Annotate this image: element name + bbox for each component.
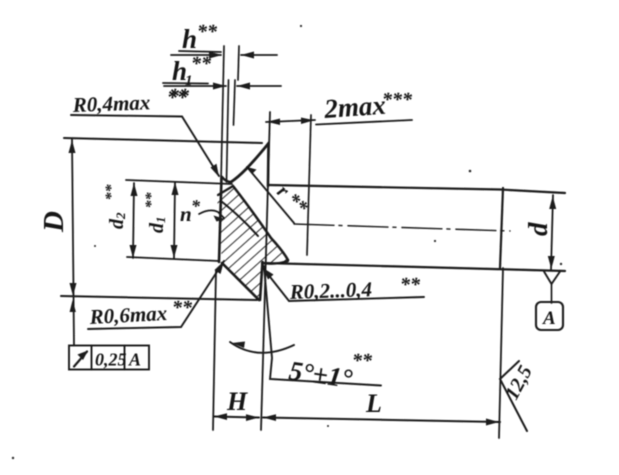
part: bottom lip inner diagonal [222,263,259,300]
svg-text:n: n [180,202,192,226]
arrow h left [209,52,222,59]
arrow d1 top [172,182,179,195]
svg-text:**: ** [191,53,212,75]
svg-text:**: ** [172,297,193,319]
wire: h dimension line right [241,54,277,56]
arrow H right [246,414,259,421]
wire: R0.2...0.4 leader and underline [263,268,424,301]
part: bottom lip right edge [260,262,263,300]
svg-text:h: h [182,24,197,54]
svg-text:R0,6max: R0,6max [88,301,168,329]
wire: d dimension line [551,195,553,270]
wire: R0.4max underline and leader [71,115,219,176]
tolerance frame [69,346,149,370]
wire: h dimension line left [171,54,221,56]
arrow R0.6max leader [215,261,225,274]
svg-text:**: ** [400,274,421,296]
part: top lip curve [231,144,268,182]
wire: inner top extension line L2 [126,180,232,184]
svg-text:*: * [191,196,201,216]
part: inner cone boundary [233,186,288,260]
wire: 2max right extension [307,115,311,255]
wire: h1 dimension line right [237,85,281,87]
wire: datum stem [551,283,553,303]
arrow h1 left [213,83,226,90]
wire: R0.6max underline and leader [88,261,224,329]
wire: L dimension line [263,418,500,423]
wire: D dimension line [72,139,74,346]
svg-text:**: ** [197,21,218,43]
arrow d1 bottom [171,245,178,258]
wire: 5 degree slant line and underline [264,266,381,386]
wire: shank bottom line L6 [262,263,565,271]
hatching [217,186,288,300]
svg-text:R0,2...0,4: R0,2...0,4 [288,277,372,304]
wire: 2max underline [316,120,412,125]
datum box A [536,302,563,330]
arrow r leader [247,167,257,174]
wire: d2 dimension line [133,183,134,258]
arrow n leader [214,216,226,222]
svg-text:d2**: d2** [103,184,128,230]
wire: h1 extension line E4 [234,80,236,125]
svg-text:2max: 2max [322,90,386,124]
svg-text:L: L [365,389,382,418]
part: left face [219,177,222,262]
part: inner cone break line [221,201,258,236]
wire: h label underline [179,51,221,52]
svg-text:H: H [226,387,248,416]
wire: h extension line E2 [238,46,239,80]
wire: 5 degree arc [230,342,294,353]
svg-text:**: ** [169,85,190,107]
arrow D top [69,140,76,153]
svg-text:A: A [542,308,556,329]
arrow D bottom [70,283,77,296]
wire: shank top line L3 [268,185,565,193]
arrow 2max right [301,118,314,125]
arrow R0.2 leader [263,268,274,280]
wire: n leader [199,210,224,218]
svg-text:d: d [523,222,553,236]
arrow d top [549,196,556,209]
wire: r leader [247,167,294,223]
part: lip root edge [218,186,233,195]
wire: d1 dimension line [174,182,175,258]
svg-text:d1**: d1** [143,192,168,234]
runout symbol arrow [74,352,87,367]
arrow arc left [232,342,245,349]
wire: shank end vertical [500,188,503,268]
svg-text:**: ** [352,350,373,372]
arrow H left [214,413,227,420]
svg-text:D: D [38,211,70,233]
wire: bottom D extension line L7 [61,296,257,300]
wire: H left extension [213,270,216,430]
arrow h1 right [237,83,250,90]
wire: 2max dimension line [266,120,315,122]
arrow R0.4max leader [211,164,220,177]
arrow L right [486,419,499,426]
svg-text:R0,4max: R0,4max [71,90,150,117]
arrow blob below L7 [70,300,76,312]
wire: h1 label underline [163,82,208,85]
wire: inner bottom extension line L5 [127,257,219,261]
arrow d bottom [548,256,555,269]
wire: centerline [294,224,510,231]
svg-text:***: *** [382,89,413,111]
svg-text:5°±1°: 5°±1° [287,355,354,394]
arrow h right [241,52,254,59]
svg-text:0,25: 0,25 [95,350,127,370]
arrowheads [69,52,557,426]
wire: L right extension [499,268,503,438]
wire: H dimension line [214,417,259,418]
svg-text:A: A [128,350,141,370]
part: right edge of lip [267,143,270,186]
part: lip root fillet [222,177,231,182]
arrow runout symbol [78,351,89,361]
wire: 2max left extension (long, also part right edge) [261,112,270,430]
part: lower band boundary [262,261,288,264]
datum triangle [544,272,560,285]
roughness symbol 12.5 [500,361,527,431]
arrow d2 top [131,183,138,196]
wire: top D extension line L1 [64,138,262,143]
arrow d2 bottom [130,245,137,258]
arrow 2max left [267,119,280,126]
wire: h extension line E1 [221,46,224,182]
arrow L left [263,414,276,421]
svg-text:12,5: 12,5 [501,362,537,403]
wire: h1 dimension line left [164,85,226,87]
wire: h1 extension line E3 [227,80,229,182]
